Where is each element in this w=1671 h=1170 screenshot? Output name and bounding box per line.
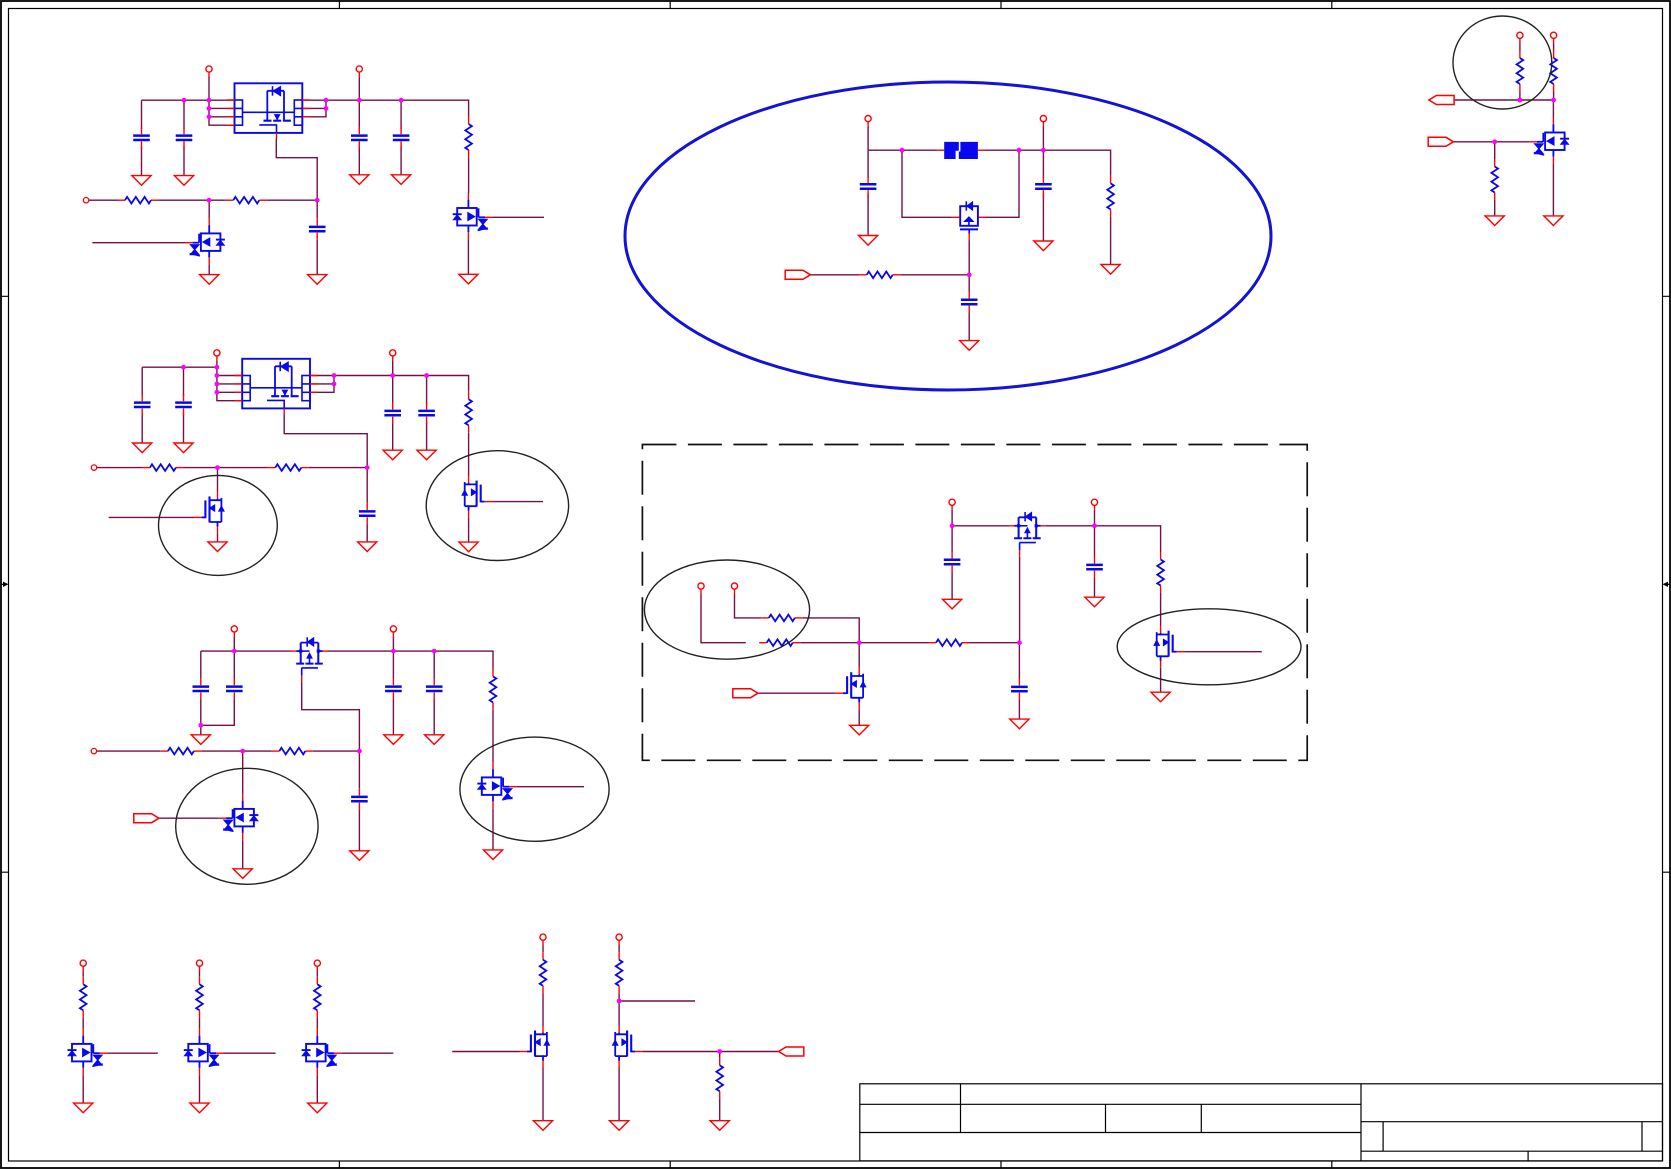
ground xyxy=(190,1103,209,1113)
transistor Q2 xyxy=(185,218,225,265)
wire xyxy=(1042,150,1044,241)
dual mosfet U1 xyxy=(227,83,310,139)
wire xyxy=(341,1052,393,1054)
wire xyxy=(392,376,394,451)
top border ticks xyxy=(339,2,1331,9)
ground xyxy=(1544,216,1563,226)
wire xyxy=(242,751,244,794)
wire xyxy=(217,361,242,401)
node junction xyxy=(857,640,862,645)
wire xyxy=(810,274,969,276)
capacitor C3 xyxy=(351,127,368,149)
transistor Q16 xyxy=(520,1026,550,1068)
wire xyxy=(859,642,1019,644)
wire xyxy=(217,376,242,393)
power VCC3 xyxy=(214,350,220,362)
wire xyxy=(242,840,244,868)
ground xyxy=(425,735,444,745)
wire xyxy=(142,99,235,101)
node junction xyxy=(240,749,245,754)
power VCC18 xyxy=(540,934,546,946)
ground xyxy=(943,599,962,609)
wire xyxy=(735,595,860,643)
wire xyxy=(142,366,217,368)
ground xyxy=(174,176,193,186)
resistor R2 xyxy=(118,197,159,204)
wire xyxy=(392,637,394,651)
wire xyxy=(302,100,326,117)
capacitor C1 xyxy=(133,127,150,149)
capacitor C21 xyxy=(1011,678,1028,700)
capacitor C20 xyxy=(1086,556,1103,578)
node junction xyxy=(1518,98,1523,103)
ground xyxy=(459,542,478,552)
node junction xyxy=(365,465,370,470)
TOPRIGHT xyxy=(1428,16,1569,226)
capacitor C11 xyxy=(193,678,210,700)
ellipse marker xyxy=(426,451,568,561)
wire xyxy=(89,199,317,201)
node junction xyxy=(357,749,362,754)
wire xyxy=(468,518,470,543)
wire xyxy=(358,751,360,851)
wire xyxy=(619,1000,695,1002)
resistor R5 xyxy=(142,464,183,471)
wire xyxy=(492,809,494,850)
capacitor C10 xyxy=(359,503,376,525)
node junction xyxy=(181,365,186,370)
power VCC19 xyxy=(616,934,622,946)
capacitor C9 xyxy=(418,402,435,424)
wire xyxy=(492,216,544,218)
terminal P1 xyxy=(83,198,88,203)
wire xyxy=(643,1051,779,1053)
resistor R13 xyxy=(761,615,802,622)
wire xyxy=(1553,43,1555,100)
wire xyxy=(199,972,201,1029)
wire xyxy=(1519,43,1521,100)
wire xyxy=(467,240,469,275)
right border ticks xyxy=(1663,296,1670,872)
transistor Q5 xyxy=(292,637,328,682)
wire xyxy=(867,150,869,235)
BOTTOMROW xyxy=(68,934,804,1130)
wire xyxy=(1455,100,1554,118)
node junction xyxy=(198,723,203,728)
node junction xyxy=(315,198,320,203)
node junction xyxy=(1017,640,1022,645)
wire xyxy=(217,533,219,542)
node junction xyxy=(1551,98,1556,103)
ground xyxy=(1151,692,1170,702)
wire xyxy=(208,200,210,218)
resistor R16 xyxy=(1517,51,1524,92)
node junction xyxy=(215,382,220,387)
power VCC16 xyxy=(196,960,202,972)
wire xyxy=(758,692,836,694)
power VCC5 xyxy=(231,626,237,638)
power VCC7 xyxy=(865,116,871,128)
capacitor C15 xyxy=(351,788,368,810)
wire xyxy=(1453,141,1529,143)
ellipse marker xyxy=(176,768,318,884)
ground xyxy=(308,275,327,285)
ground xyxy=(1101,265,1120,275)
ground xyxy=(208,542,227,552)
wire xyxy=(1494,142,1496,216)
power VCC8 xyxy=(1040,116,1046,128)
ellipse marker xyxy=(460,737,609,841)
wire xyxy=(107,1052,158,1054)
BLOCK3 xyxy=(91,626,609,884)
capacitor C13 xyxy=(385,678,402,700)
node junction xyxy=(1017,148,1022,153)
wire xyxy=(209,107,235,109)
wire xyxy=(141,100,143,175)
wire xyxy=(358,100,360,175)
wire xyxy=(201,650,292,652)
wire xyxy=(1094,526,1096,597)
left border ticks xyxy=(2,296,9,872)
wire xyxy=(284,414,367,467)
ground xyxy=(417,450,436,460)
transistor Q10 xyxy=(1009,512,1045,557)
wire xyxy=(426,376,428,451)
power VCC13 xyxy=(1517,32,1523,44)
wire xyxy=(302,100,468,116)
wire xyxy=(452,1051,519,1053)
resistor R10 xyxy=(1107,176,1114,217)
ellipse marker xyxy=(1117,609,1301,685)
node junction xyxy=(207,98,212,103)
power VCC15 xyxy=(80,960,86,972)
wire xyxy=(985,150,1111,176)
wire xyxy=(986,150,1019,217)
ground xyxy=(483,850,502,860)
wire xyxy=(302,107,326,109)
ground xyxy=(74,1103,93,1113)
resistor R18 xyxy=(1491,159,1498,200)
node junction xyxy=(424,373,429,378)
ground xyxy=(392,175,411,185)
node junction xyxy=(207,114,212,119)
wire xyxy=(233,637,235,651)
resistor R22 xyxy=(540,952,547,993)
resistor R14 xyxy=(929,639,970,646)
wire xyxy=(97,467,368,469)
resistor R6 xyxy=(268,464,309,471)
connector J1 xyxy=(134,814,159,823)
power VCC4 xyxy=(390,350,396,362)
resistor R23 xyxy=(616,952,623,993)
transistor Q14 xyxy=(184,1029,224,1076)
node junction xyxy=(1041,148,1046,153)
transistor Q7 xyxy=(219,794,259,841)
capacitor C18 xyxy=(961,291,978,313)
wire xyxy=(358,78,360,101)
power VCC14 xyxy=(1551,32,1557,44)
TITLEBLOCK xyxy=(860,1084,1663,1161)
node junction xyxy=(1492,139,1497,144)
capacitor C12 xyxy=(226,678,243,700)
transistor Q15 xyxy=(302,1029,342,1076)
DASHEDBOX xyxy=(642,445,1307,761)
ground xyxy=(384,735,403,745)
wire xyxy=(316,200,318,274)
transistor Q17 xyxy=(612,1026,642,1068)
wire xyxy=(208,265,210,275)
dashed highlight box xyxy=(642,445,1307,761)
wire xyxy=(217,468,219,492)
resistor R11 xyxy=(859,272,900,279)
connector J5 xyxy=(1428,137,1453,146)
connector J4 xyxy=(1429,96,1454,105)
power VCC10 xyxy=(731,583,737,595)
wire xyxy=(951,526,953,600)
wire xyxy=(542,946,544,1027)
capacitor C8 xyxy=(384,402,401,424)
wire xyxy=(209,77,235,125)
wire xyxy=(224,1052,276,1054)
ground xyxy=(350,851,369,861)
wire xyxy=(141,367,143,443)
dual mosfet U2 xyxy=(235,359,318,415)
ground xyxy=(1485,216,1504,226)
wire xyxy=(276,139,317,201)
node junction xyxy=(232,649,237,654)
wire xyxy=(951,511,953,526)
wire xyxy=(1094,511,1096,526)
capacitor C16 xyxy=(860,176,877,198)
ground xyxy=(1085,597,1104,607)
wire xyxy=(392,361,394,376)
ground xyxy=(350,175,369,185)
node junction xyxy=(617,999,622,1004)
wire xyxy=(1552,164,1554,216)
transistor Q13 xyxy=(68,1029,108,1076)
resistor R8 xyxy=(160,748,201,755)
wire xyxy=(316,972,318,1029)
node junction xyxy=(215,390,220,395)
capacitor C6 xyxy=(134,394,151,416)
resistor R20 xyxy=(196,977,203,1018)
capacitor C17 xyxy=(1035,176,1052,198)
BLOCK1 xyxy=(83,66,544,284)
BIGELLIPSE xyxy=(625,82,1271,390)
wire xyxy=(1184,651,1262,653)
node junction xyxy=(215,373,220,378)
ground xyxy=(1034,241,1053,251)
wire xyxy=(310,376,334,393)
wire xyxy=(183,367,185,443)
ground xyxy=(1010,719,1029,729)
resistor R3 xyxy=(226,197,267,204)
wire xyxy=(868,149,937,151)
wire xyxy=(968,275,970,341)
wire xyxy=(468,433,470,476)
wire xyxy=(316,1075,318,1103)
resistor R15 xyxy=(1157,552,1164,593)
wire xyxy=(183,100,185,175)
wire xyxy=(492,501,543,503)
ground xyxy=(174,443,193,453)
wire xyxy=(82,1075,84,1103)
BLOCK2 xyxy=(91,350,568,576)
wire xyxy=(517,786,584,788)
wire xyxy=(858,709,860,725)
transistor Q1 xyxy=(453,193,493,240)
resistor R7 xyxy=(490,669,497,710)
wire xyxy=(200,651,202,735)
connector J3 xyxy=(733,689,758,698)
terminal P3 xyxy=(91,748,96,753)
wire xyxy=(858,643,860,668)
node junction xyxy=(432,649,437,654)
node junction xyxy=(324,98,329,103)
wire xyxy=(199,1075,201,1103)
wire xyxy=(952,526,1161,552)
node junction xyxy=(967,272,972,277)
resistor R1 xyxy=(465,117,472,158)
capacitor C2 xyxy=(176,127,193,149)
node junction xyxy=(399,98,404,103)
wire xyxy=(867,127,869,150)
ellipse marker xyxy=(1453,16,1552,109)
resistor R19 xyxy=(80,977,87,1018)
ground xyxy=(850,725,869,735)
ground xyxy=(610,1121,629,1131)
node junction xyxy=(215,365,220,370)
highlight ellipse xyxy=(625,82,1271,390)
ground xyxy=(132,176,151,186)
capacitor C14 xyxy=(426,678,443,700)
transistor Q12 xyxy=(1529,118,1569,165)
ground xyxy=(200,275,219,285)
ground xyxy=(859,236,878,246)
power VCC9 xyxy=(698,583,704,595)
node junction xyxy=(332,382,337,387)
node junction xyxy=(357,98,362,103)
resistor R4 xyxy=(465,392,472,433)
resistor R21 xyxy=(314,977,321,1018)
node junction xyxy=(332,373,337,378)
resistor R12 xyxy=(759,639,800,646)
power VCC12 xyxy=(1091,499,1097,511)
wire xyxy=(1160,668,1162,693)
ground xyxy=(133,443,152,453)
wire xyxy=(400,100,402,175)
ground xyxy=(383,450,402,460)
wire xyxy=(618,1068,620,1121)
power VCC17 xyxy=(314,960,320,972)
ground xyxy=(191,735,210,745)
terminal P2 xyxy=(91,465,96,470)
wire xyxy=(618,946,620,1027)
ground xyxy=(710,1121,729,1131)
wire xyxy=(310,376,469,392)
resistor R17 xyxy=(1550,51,1557,92)
wire xyxy=(1042,127,1044,150)
wire xyxy=(109,516,194,518)
node junction xyxy=(390,373,395,378)
wire xyxy=(366,468,368,542)
capacitor C5 xyxy=(309,218,326,240)
wire xyxy=(159,817,219,819)
capacitor C19 xyxy=(944,551,961,573)
transistor Q11 xyxy=(1154,626,1184,668)
node junction xyxy=(900,148,905,153)
wire xyxy=(542,1068,544,1121)
wire xyxy=(1110,217,1112,265)
bottom border ticks xyxy=(339,1161,1331,1168)
node junction xyxy=(207,106,212,111)
resistor R24 xyxy=(716,1058,723,1099)
transistor Q4 xyxy=(194,492,224,534)
ground xyxy=(308,1103,327,1113)
node junction xyxy=(950,523,955,528)
wire xyxy=(433,651,435,735)
resistor R9 xyxy=(272,748,313,755)
connector J6 xyxy=(779,1047,804,1056)
transistor Q8 xyxy=(952,201,986,240)
ground xyxy=(459,274,478,284)
power VCC1 xyxy=(206,66,212,78)
power VCC6 xyxy=(390,626,396,638)
ground xyxy=(358,542,377,552)
connector J2 xyxy=(785,270,810,279)
wire xyxy=(302,682,360,751)
node junction xyxy=(324,106,329,111)
ellipse marker xyxy=(159,475,278,575)
capacitor C4 xyxy=(393,127,410,149)
wire xyxy=(1160,593,1162,626)
transistor Q3 xyxy=(462,476,492,517)
wire xyxy=(201,651,235,725)
transistor Q9 xyxy=(836,668,866,710)
wire xyxy=(209,116,235,118)
wire xyxy=(492,710,494,763)
node junction xyxy=(207,198,212,203)
wire xyxy=(719,1052,721,1121)
node junction xyxy=(391,649,396,654)
wire xyxy=(392,651,394,735)
wire xyxy=(968,241,970,275)
transistor Q6 xyxy=(477,762,517,809)
wire xyxy=(902,150,952,217)
fuse F1 xyxy=(937,142,985,159)
wire xyxy=(97,750,360,752)
wire xyxy=(82,972,84,1029)
ground xyxy=(960,341,979,351)
wire xyxy=(701,595,859,643)
wire xyxy=(1018,643,1020,719)
left border center arrow xyxy=(2,583,7,585)
power VCC11 xyxy=(949,499,955,511)
node junction xyxy=(717,1049,722,1054)
right border center arrow xyxy=(1665,583,1670,585)
ground xyxy=(533,1121,552,1131)
wire xyxy=(468,158,470,194)
wire xyxy=(328,651,494,669)
capacitor C7 xyxy=(175,394,192,416)
wire xyxy=(1019,557,1021,643)
node junction xyxy=(215,465,220,470)
ground xyxy=(233,869,252,879)
power VCC2 xyxy=(356,66,362,78)
node junction xyxy=(182,98,187,103)
node junction xyxy=(1092,523,1097,528)
wire xyxy=(92,242,185,244)
